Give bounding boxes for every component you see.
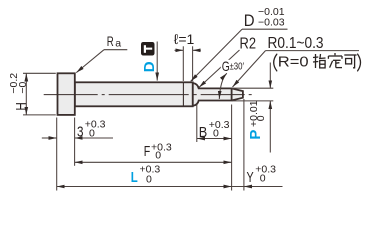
- svg-text:0: 0: [155, 150, 161, 162]
- svg-text:Y: Y: [247, 169, 254, 186]
- svg-text:+0.3: +0.3: [151, 141, 172, 153]
- svg-text:−0.2: −0.2: [8, 73, 20, 94]
- svg-text:L: L: [131, 169, 138, 186]
- svg-text:0: 0: [213, 128, 219, 140]
- svg-text:0: 0: [89, 127, 95, 139]
- svg-text:0: 0: [255, 115, 267, 121]
- svg-text:P: P: [247, 130, 264, 140]
- svg-text:D: D: [141, 61, 158, 72]
- svg-text:+0.3: +0.3: [85, 118, 106, 130]
- svg-text:D: D: [244, 11, 255, 30]
- svg-text:R=0: R=0: [278, 55, 309, 71]
- svg-text:+0.3: +0.3: [209, 119, 230, 131]
- svg-text:+0.01: +0.01: [248, 100, 260, 127]
- svg-text:B: B: [199, 124, 208, 141]
- svg-text:a: a: [115, 38, 121, 50]
- svg-text:R2: R2: [240, 36, 257, 53]
- svg-text:−0.03: −0.03: [258, 17, 285, 29]
- svg-text:H: H: [13, 102, 30, 110]
- svg-text:R0.1~0.3: R0.1~0.3: [268, 35, 324, 52]
- svg-text:F: F: [144, 143, 151, 160]
- svg-text:±30′: ±30′: [230, 61, 245, 72]
- svg-text:3: 3: [77, 123, 84, 140]
- svg-text:0: 0: [146, 173, 152, 185]
- svg-text:+0.3: +0.3: [255, 163, 276, 175]
- svg-text:ℓ=1: ℓ=1: [174, 31, 195, 47]
- svg-text:R: R: [107, 33, 114, 49]
- svg-text:0: 0: [260, 173, 266, 185]
